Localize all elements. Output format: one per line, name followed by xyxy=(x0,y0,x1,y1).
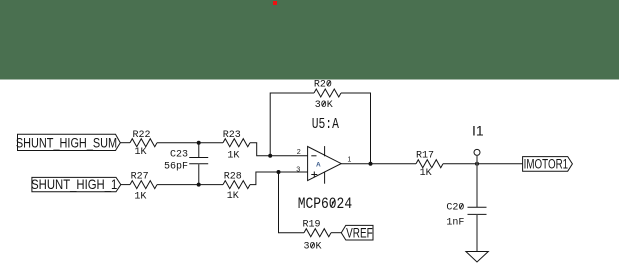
svg-text:MCP6024: MCP6024 xyxy=(298,196,352,214)
svg-text:R22: R22 xyxy=(132,130,150,141)
svg-text:VREF: VREF xyxy=(346,225,372,241)
svg-text:56pF: 56pF xyxy=(164,162,188,173)
svg-text:A: A xyxy=(316,161,321,168)
svg-text:30K: 30K xyxy=(303,242,321,253)
svg-text:R27: R27 xyxy=(131,171,149,182)
svg-text:SHUNT_HIGH_1: SHUNT_HIGH_1 xyxy=(31,176,117,192)
svg-text:C23: C23 xyxy=(170,150,188,161)
svg-text:1K: 1K xyxy=(227,191,239,202)
svg-text:C20: C20 xyxy=(446,203,464,214)
svg-text:U5:A: U5:A xyxy=(312,116,339,133)
svg-text:R23: R23 xyxy=(223,130,241,141)
svg-text:I1: I1 xyxy=(472,123,484,139)
svg-text:R20: R20 xyxy=(314,80,332,91)
svg-text:IMOTOR1: IMOTOR1 xyxy=(524,156,569,172)
svg-text:R19: R19 xyxy=(302,220,320,231)
svg-text:1K: 1K xyxy=(134,147,146,158)
svg-text:2: 2 xyxy=(297,147,301,156)
svg-text:30K: 30K xyxy=(315,100,333,111)
svg-text:R28: R28 xyxy=(224,172,242,183)
svg-text:SHUNT_HIGH_SUM: SHUNT_HIGH_SUM xyxy=(16,135,117,151)
svg-text:1: 1 xyxy=(347,154,351,163)
svg-text:1nF: 1nF xyxy=(446,218,464,229)
svg-text:3: 3 xyxy=(296,165,300,174)
svg-text:R17: R17 xyxy=(416,151,434,162)
svg-text:1K: 1K xyxy=(227,151,239,162)
svg-text:1K: 1K xyxy=(420,168,432,179)
svg-text:1K: 1K xyxy=(134,192,146,203)
